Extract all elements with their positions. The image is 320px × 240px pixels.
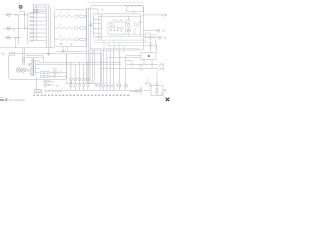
wire (bottom rail) — [44, 89, 131, 91]
ground (below heater box) — [56, 43, 86, 52]
terminal strip (enclosure top right) — [126, 6, 143, 11]
heater box E1 — [55, 10, 87, 47]
pin 1 marker — [101, 9, 103, 11]
switch S1 — [139, 65, 143, 67]
title block logo text — [0, 97, 25, 102]
main bus L (y62) — [37, 61, 121, 63]
diodes D1-D4 row — [110, 30, 122, 32]
switch S2 — [139, 69, 143, 71]
wire (feed to relay K2) — [107, 58, 141, 68]
wire (center bus pair) — [87, 8, 89, 84]
controller enclosure U1 — [90, 5, 143, 50]
wire (transformer primary leads) — [25, 69, 31, 73]
control pcb U2 — [94, 14, 141, 36]
sensor B1 — [145, 78, 151, 87]
connector P2 — [144, 29, 165, 32]
relay K11 block — [108, 19, 126, 34]
terminal X1 row 3 — [4, 36, 21, 39]
crystal X2 inside valve box — [156, 86, 159, 95]
wire (relay K2 leads) — [144, 59, 152, 68]
wire (node A drop) — [21, 9, 25, 15]
lamp H2 — [137, 87, 143, 95]
terminal X1 row 2 — [4, 27, 30, 32]
auxiliary block K4 — [43, 80, 55, 91]
contact ladder K1..K10 — [30, 5, 47, 42]
wire (pcb top run) — [98, 15, 140, 17]
connector P3 — [144, 36, 167, 39]
wire (band drops) — [104, 40, 124, 52]
box (bottom centre enclosure) — [67, 53, 102, 83]
wire (secondary bus drops) — [90, 50, 95, 84]
lamp row group 2 (tall stubs) — [96, 50, 128, 90]
terminal strip TS1 (inside controller, left) — [93, 15, 102, 41]
net N1 (dashed control net) — [88, 1, 144, 3]
test points row — [53, 90, 63, 92]
node A pin dot — [17, 2, 19, 5]
resistor R3 row — [55, 35, 86, 41]
terminal X1 row 1 — [4, 13, 30, 16]
terminal X2 stub — [1, 52, 14, 55]
wire (control band) — [90, 31, 156, 48]
wire (band drops to relay box) — [150, 35, 156, 53]
wire (strip drop) — [133, 11, 135, 14]
varistor RV1 — [28, 63, 31, 66]
wire (bus top tie) — [86, 9, 98, 14]
wire (secondary out top) — [26, 56, 44, 63]
rectifier D2 — [21, 68, 25, 72]
relay K2 box with indicator — [141, 53, 156, 60]
connector P1 — [144, 14, 168, 20]
wire (left vertical feeders) — [16, 13, 28, 47]
lamp H1 — [134, 90, 136, 92]
main bus N (y64) — [37, 63, 121, 65]
transformer T1 — [31, 59, 39, 77]
net PE (dashed bottom rail) — [34, 94, 131, 96]
resistor R1 row — [55, 12, 86, 18]
wire (valve leads) — [144, 89, 166, 91]
transistor Q1 — [127, 16, 138, 34]
node corner (bottom right stub) — [161, 92, 163, 94]
power unit box (bottom left) — [9, 54, 67, 80]
ground (bus riser) — [47, 48, 51, 56]
svg-text:Sch 1/2 Elektro: Sch 1/2 Elektro — [9, 99, 26, 102]
node A (top feed node) — [19, 5, 22, 8]
resistor R2 row — [55, 23, 86, 29]
rectifier D1 — [16, 68, 20, 72]
valve V1 box — [151, 86, 163, 96]
solenoid Y1 coil — [156, 71, 158, 86]
lamp row group (stubs with indicators) — [70, 62, 97, 90]
connector X3 (under transformer) — [35, 76, 42, 92]
broken-image mark (X) — [166, 98, 169, 101]
wire (connector drop) — [155, 39, 157, 48]
relay contact K12 — [127, 29, 131, 32]
wire (lamp feed) — [130, 90, 134, 92]
wire (lower left rail) — [1, 47, 55, 49]
wire (right control pair) — [102, 65, 159, 69]
contactor K5 small group — [54, 69, 62, 87]
wire (bus risers) — [46, 5, 51, 48]
wire (feed pair into power unit) — [23, 48, 25, 66]
diode D5 — [137, 15, 142, 36]
auxiliary contacts K3 group — [41, 70, 67, 78]
